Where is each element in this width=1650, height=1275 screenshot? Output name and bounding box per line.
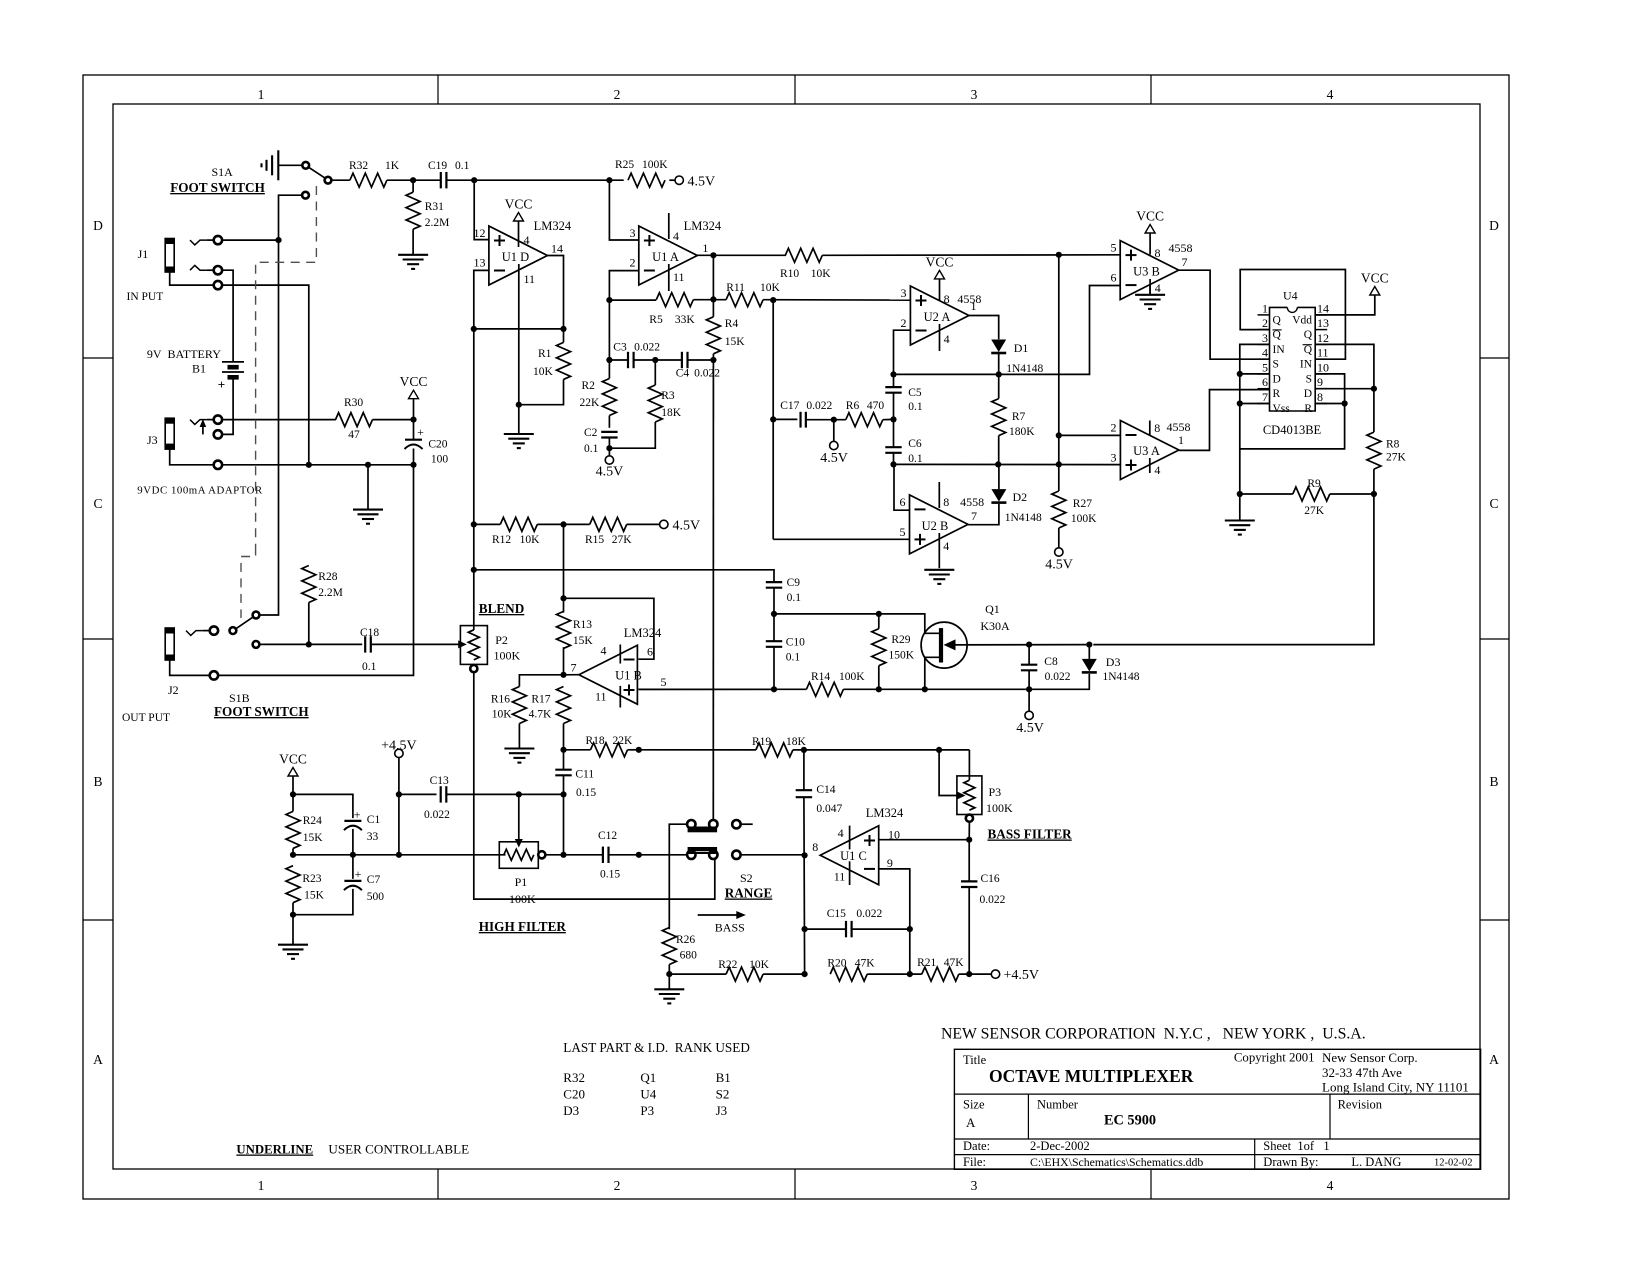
svg-text:Sheet 1of 1: Sheet 1of 1 xyxy=(1263,1139,1329,1153)
svg-text:J1: J1 xyxy=(138,247,149,261)
svg-text:Q: Q xyxy=(1304,344,1313,356)
svg-text:R32: R32 xyxy=(563,1070,585,1085)
wire (P1 to C12) xyxy=(545,854,602,856)
pin 7 label (U2B) xyxy=(971,509,977,523)
svg-text:500: 500 xyxy=(367,891,385,903)
svg-text:S2: S2 xyxy=(716,1087,730,1102)
junction xyxy=(922,686,928,692)
svg-text:+: + xyxy=(218,377,225,392)
svg-text:0.1: 0.1 xyxy=(362,661,377,673)
svg-text:0.1: 0.1 xyxy=(908,401,923,413)
table LAST PART & I.D. RANK USED xyxy=(563,1040,750,1118)
wire (C11 bottom to main line) xyxy=(563,794,565,854)
svg-text:NEW SENSOR CORPORATION N.Y.C: NEW SENSOR CORPORATION N.Y.C , NEW YORK … xyxy=(941,1026,1366,1043)
wire (pin 10 line) xyxy=(879,839,969,841)
wire (J3 sleeve / ground line) xyxy=(170,449,414,465)
svg-text:1: 1 xyxy=(258,87,265,102)
wire (C1 bottom) xyxy=(352,829,354,855)
junction xyxy=(560,852,566,858)
svg-text:7: 7 xyxy=(1182,255,1188,269)
wire (R31 leads) xyxy=(412,180,414,254)
svg-text:15K: 15K xyxy=(573,635,594,647)
wire (R23 bottom) xyxy=(292,903,294,945)
svg-text:1: 1 xyxy=(971,299,977,313)
svg-text:+4.5V: +4.5V xyxy=(1004,968,1040,983)
svg-text:2: 2 xyxy=(614,1178,621,1193)
section label BASS FILTER xyxy=(988,827,1073,842)
wire (J2 tip lever) xyxy=(186,631,210,636)
contact (J1 ring) xyxy=(214,266,222,274)
wire (R18 leads) xyxy=(564,749,639,751)
svg-text:9VDC 100mA ADAPTOR: 9VDC 100mA ADAPTOR xyxy=(137,485,263,497)
svg-text:0.022: 0.022 xyxy=(634,342,660,354)
svg-text:0.022: 0.022 xyxy=(856,908,882,920)
resistor R15 xyxy=(585,517,632,546)
capacitor C14 xyxy=(796,784,843,815)
svg-text:12: 12 xyxy=(1317,331,1329,345)
svg-text:VCC: VCC xyxy=(926,254,954,269)
svg-text:4.5V: 4.5V xyxy=(596,465,624,480)
svg-text:J2: J2 xyxy=(168,683,179,697)
wire (C11 leads) xyxy=(563,750,565,795)
svg-text:3: 3 xyxy=(971,1178,978,1193)
svg-text:Vdd: Vdd xyxy=(1292,314,1312,326)
svg-text:+: + xyxy=(417,425,424,439)
svg-text:R1: R1 xyxy=(538,348,552,360)
svg-text:2-Dec-2002: 2-Dec-2002 xyxy=(1030,1139,1090,1153)
wire (S2 upper-left to R26) xyxy=(669,824,687,929)
resistor R23 xyxy=(286,866,325,903)
junction xyxy=(996,371,1002,377)
capacitor C4 xyxy=(676,352,721,380)
svg-text:4: 4 xyxy=(1155,281,1161,295)
wire (main 854 line) xyxy=(293,854,506,856)
wire (ground to S1A throw 1) xyxy=(278,164,301,166)
svg-text:U1 C: U1 C xyxy=(840,849,867,863)
wire (S1B throw down to C18) xyxy=(260,643,362,645)
capacitor C13 xyxy=(424,775,450,821)
note UNDERLINE USER CONTROLLABLE xyxy=(236,1142,469,1157)
svg-text:10K: 10K xyxy=(520,534,541,546)
svg-text:C4: C4 xyxy=(676,368,690,380)
junction xyxy=(652,357,658,363)
wire (U1A chain to S2) xyxy=(712,360,714,820)
ground (R31) xyxy=(398,255,428,269)
junction xyxy=(1237,491,1243,497)
wire (R21 to +4.5V) xyxy=(959,973,991,975)
wire (S2 lower-right to U1C) xyxy=(740,854,804,856)
svg-text:11: 11 xyxy=(524,272,536,286)
wire (C2 bottom) xyxy=(608,438,610,456)
wire (gate line) xyxy=(944,639,1087,650)
svg-text:D3: D3 xyxy=(1106,655,1121,669)
svg-text:VCC: VCC xyxy=(279,752,307,767)
wire (C15 leads) xyxy=(805,928,910,930)
svg-text:2: 2 xyxy=(614,87,621,102)
wire (BASS arrow) xyxy=(698,911,746,935)
svg-text:5: 5 xyxy=(900,525,906,539)
junction xyxy=(290,912,296,918)
svg-text:0.022: 0.022 xyxy=(980,894,1006,906)
svg-text:13: 13 xyxy=(1317,316,1329,330)
VCC symbol (U1D) xyxy=(505,197,533,222)
svg-text:C17: C17 xyxy=(780,400,799,412)
svg-text:7: 7 xyxy=(1262,390,1268,404)
resistor R17 xyxy=(529,687,571,724)
svg-text:0.022: 0.022 xyxy=(424,809,450,821)
resistor R16 xyxy=(491,687,527,724)
svg-text:27K: 27K xyxy=(612,534,633,546)
svg-text:11: 11 xyxy=(834,870,846,884)
svg-text:C2: C2 xyxy=(584,427,598,439)
svg-text:8: 8 xyxy=(812,840,818,854)
svg-text:Vss: Vss xyxy=(1273,403,1291,415)
wire (pin2 node down) xyxy=(608,300,610,360)
wire (R5 leads) xyxy=(609,299,726,301)
wire (C12 to S2) xyxy=(609,854,688,856)
svg-text:C19: C19 xyxy=(428,160,447,172)
svg-text:4.5V: 4.5V xyxy=(1016,721,1044,736)
capacitor C18 xyxy=(360,627,379,673)
wire (C8/D3 bottom line) xyxy=(925,674,1090,689)
contact (P3 wiper out) xyxy=(966,815,973,822)
resistor R20 xyxy=(827,958,875,982)
wire (pin 2 loop U2A) xyxy=(894,330,911,374)
capacitor C7 xyxy=(344,867,384,903)
jack J3 xyxy=(137,418,263,496)
svg-text:P1: P1 xyxy=(515,875,528,889)
junction xyxy=(636,747,642,753)
ground (R16) xyxy=(504,749,534,763)
wire (C17 line) xyxy=(773,418,797,420)
svg-text:LM324: LM324 xyxy=(866,806,904,820)
wire (J1 ring lever) xyxy=(190,265,214,270)
svg-text:R15: R15 xyxy=(585,534,604,546)
wire (R7 leads) xyxy=(998,374,1000,464)
svg-text:22K: 22K xyxy=(580,397,601,409)
svg-text:13: 13 xyxy=(474,256,486,270)
contact (J2 tip) xyxy=(210,626,218,634)
svg-text:EC 5900: EC 5900 xyxy=(1104,1113,1156,1129)
svg-text:33K: 33K xyxy=(675,314,696,326)
svg-text:10K: 10K xyxy=(760,282,781,294)
potentiometer P2 (BLEND) xyxy=(460,601,524,664)
svg-text:LM324: LM324 xyxy=(534,219,572,233)
svg-text:8: 8 xyxy=(1317,390,1323,404)
wire (D1 to node line) xyxy=(998,353,1000,374)
svg-text:100K: 100K xyxy=(986,801,1013,815)
wire (R24 leads) xyxy=(292,794,294,854)
svg-text:J3: J3 xyxy=(147,433,158,447)
svg-text:R5: R5 xyxy=(649,314,663,326)
svg-text:Q: Q xyxy=(1304,329,1313,341)
svg-text:C15: C15 xyxy=(827,908,846,920)
svg-text:C10: C10 xyxy=(786,637,805,649)
svg-text:HIGH FILTER: HIGH FILTER xyxy=(479,919,567,934)
wire (R6 to C5/C6 node) xyxy=(883,418,894,420)
op-amp U2B xyxy=(900,482,985,568)
wire (C9 bottom) xyxy=(773,588,775,614)
resistor R10 xyxy=(780,248,831,280)
title block xyxy=(954,1049,1480,1169)
svg-text:R31: R31 xyxy=(425,201,444,213)
potentiometer P3 (BASS FILTER) xyxy=(957,776,1013,815)
junction xyxy=(410,177,416,183)
svg-text:6: 6 xyxy=(647,645,653,659)
wire (C13 to P1 wiper) xyxy=(446,793,563,795)
svg-text:B: B xyxy=(93,774,102,789)
resistor R21 xyxy=(917,957,964,981)
junction xyxy=(831,417,837,423)
svg-text:VCC: VCC xyxy=(505,197,533,212)
svg-text:C6: C6 xyxy=(908,438,922,450)
pin 8 label (U1C) xyxy=(812,840,818,854)
wire (4.5V stem) xyxy=(833,420,835,441)
svg-text:R27: R27 xyxy=(1073,498,1092,510)
svg-text:0.047: 0.047 xyxy=(816,803,842,815)
junction xyxy=(290,852,296,858)
svg-text:3: 3 xyxy=(901,286,907,300)
svg-text:Number: Number xyxy=(1037,1098,1079,1112)
wire (C5 leads) xyxy=(893,374,895,419)
svg-text:4558: 4558 xyxy=(957,292,981,306)
terminal 4.5V xyxy=(675,175,715,190)
wire (P3 wiper) xyxy=(939,750,965,800)
svg-text:4: 4 xyxy=(1327,1178,1334,1193)
wire (source line) xyxy=(925,657,939,689)
svg-text:4: 4 xyxy=(838,826,844,840)
junction xyxy=(1342,400,1348,406)
svg-text:BASS FILTER: BASS FILTER xyxy=(988,827,1073,842)
svg-text:+: + xyxy=(354,808,361,822)
svg-text:0.1: 0.1 xyxy=(908,453,923,465)
resistor R4 xyxy=(706,317,745,354)
wire (C8 leads) xyxy=(1028,645,1030,690)
wire (U4 pin3/5/7 ground bus) xyxy=(1240,344,1345,449)
contact (J2 sleeve) xyxy=(210,671,218,679)
wire (U1B pin5 line / R14 line) xyxy=(638,688,806,690)
svg-text:D: D xyxy=(1273,373,1281,385)
svg-text:2: 2 xyxy=(1111,421,1117,435)
svg-text:4: 4 xyxy=(1154,463,1160,477)
contact (J3 sleeve) xyxy=(214,461,222,469)
wire (C20 leads) xyxy=(413,420,415,465)
svg-text:C14: C14 xyxy=(816,784,835,796)
svg-text:4: 4 xyxy=(601,644,607,658)
svg-text:22K: 22K xyxy=(613,735,634,747)
terminal +4.5V (R21) xyxy=(991,968,1039,983)
resistor R25 xyxy=(615,159,668,187)
svg-text:3: 3 xyxy=(971,87,978,102)
junction xyxy=(471,567,477,573)
junction xyxy=(606,445,612,451)
svg-text:LAST PART & I.D. RANK USED: LAST PART & I.D. RANK USED xyxy=(563,1040,750,1055)
resistor R14 xyxy=(806,671,865,696)
pin 14 label (U1D) xyxy=(551,242,563,256)
resistor R22 xyxy=(718,959,769,981)
resistor R5 xyxy=(649,293,695,326)
capacitor C17 xyxy=(780,400,832,428)
capacitor C10 xyxy=(766,637,805,664)
pin 1 label (U1A) xyxy=(702,241,708,255)
svg-text:C16: C16 xyxy=(981,873,1000,885)
svg-text:47: 47 xyxy=(348,429,360,441)
svg-text:S2: S2 xyxy=(740,871,753,885)
junction xyxy=(290,791,296,797)
wire (U4 pin12 to R8) xyxy=(1315,344,1374,432)
junction xyxy=(890,461,896,467)
svg-text:R: R xyxy=(1273,388,1281,400)
svg-text:R18: R18 xyxy=(586,735,605,747)
capacitor C12 xyxy=(598,830,620,881)
svg-text:VCC: VCC xyxy=(1136,209,1164,224)
svg-text:C11: C11 xyxy=(575,769,594,781)
diode D1 xyxy=(991,340,1043,376)
contact (J3 tip) xyxy=(214,415,222,423)
svg-text:File:: File: xyxy=(963,1155,986,1169)
junction xyxy=(710,252,716,258)
op-amp U3B xyxy=(1111,233,1193,300)
wire (P2 bottom to HIGH FILTER loop) xyxy=(474,672,715,899)
svg-text:U1 B: U1 B xyxy=(615,669,642,683)
svg-text:7: 7 xyxy=(971,509,977,523)
wire (battery to J3 tip NC) xyxy=(222,377,233,434)
svg-text:47K: 47K xyxy=(855,958,876,970)
svg-text:U1 D: U1 D xyxy=(502,250,529,264)
terminal 4.5V (R6) xyxy=(820,441,848,466)
wire (R8 bottom) xyxy=(1373,469,1375,494)
wire (ground stub) xyxy=(367,465,369,510)
wire (R32 to C19) xyxy=(387,179,441,181)
resistor R24 xyxy=(286,811,323,848)
wire (pin 3 stub) xyxy=(609,180,638,240)
svg-text:R3: R3 xyxy=(661,390,675,402)
junction xyxy=(802,971,808,977)
svg-text:0.15: 0.15 xyxy=(600,869,620,881)
junction xyxy=(471,326,477,332)
svg-text:9: 9 xyxy=(887,856,893,870)
svg-text:L. DANG: L. DANG xyxy=(1351,1155,1401,1169)
svg-text:4: 4 xyxy=(673,229,679,243)
svg-text:1: 1 xyxy=(702,241,708,255)
resistor R11 xyxy=(726,282,780,307)
VCC symbol xyxy=(400,374,428,419)
resistor R30 xyxy=(336,397,373,441)
wire (U4 pin10 to pin8) xyxy=(1315,374,1344,404)
capacitor C19 xyxy=(428,160,470,188)
svg-text:U3 A: U3 A xyxy=(1133,444,1160,458)
junction xyxy=(275,237,281,243)
svg-text:15K: 15K xyxy=(725,336,746,348)
svg-text:IN: IN xyxy=(1300,359,1313,371)
junction xyxy=(802,852,808,858)
svg-text:1N4148: 1N4148 xyxy=(1006,363,1043,375)
junction xyxy=(802,926,808,932)
svg-text:UNDERLINE: UNDERLINE xyxy=(236,1143,313,1157)
svg-text:C1: C1 xyxy=(367,814,381,826)
resistor R7 xyxy=(992,399,1036,438)
wire (R9 leads) xyxy=(1240,493,1374,495)
junction xyxy=(907,971,913,977)
svg-text:R17: R17 xyxy=(531,694,550,706)
jack J1 xyxy=(127,239,175,304)
svg-text:A: A xyxy=(966,1115,976,1130)
svg-text:+4.5V: +4.5V xyxy=(381,739,417,754)
svg-text:4: 4 xyxy=(943,539,949,553)
junction xyxy=(606,357,612,363)
svg-text:1: 1 xyxy=(1262,301,1268,315)
wire (R3 leads) xyxy=(609,360,655,448)
diode D2 xyxy=(991,489,1042,524)
svg-text:R19: R19 xyxy=(752,736,771,748)
svg-text:12: 12 xyxy=(474,226,486,240)
wire (C7 leads) xyxy=(293,855,353,915)
terminal 4.5V (C8) xyxy=(1016,711,1044,736)
svg-text:18K: 18K xyxy=(661,407,682,419)
svg-text:100K: 100K xyxy=(1071,513,1097,525)
wire (ground stub U1D) xyxy=(518,405,520,434)
wire (U4 ground bus down) xyxy=(1239,449,1241,494)
wire (R29 leads) xyxy=(878,614,880,689)
svg-text:C: C xyxy=(93,496,102,511)
wire (pin 5 U2B) xyxy=(773,538,909,540)
svg-text:D1: D1 xyxy=(1014,341,1029,355)
svg-text:R30: R30 xyxy=(344,397,363,409)
svg-text:4: 4 xyxy=(524,233,530,247)
svg-text:9V BATTERY: 9V BATTERY xyxy=(147,347,221,361)
svg-text:BLEND: BLEND xyxy=(479,601,524,616)
junction xyxy=(710,296,716,302)
svg-text:Revision: Revision xyxy=(1338,1098,1383,1112)
svg-text:12-02-02: 12-02-02 xyxy=(1434,1158,1473,1169)
wire (C19 node down to pin 12) xyxy=(474,180,489,239)
svg-text:1: 1 xyxy=(1178,433,1184,447)
svg-text:0.1: 0.1 xyxy=(455,160,470,172)
svg-text:U1 A: U1 A xyxy=(652,250,679,264)
terminal 4.5V (C2) xyxy=(596,456,624,480)
svg-text:VCC: VCC xyxy=(400,374,428,389)
svg-text:USER CONTROLLABLE: USER CONTROLLABLE xyxy=(328,1142,469,1157)
junction xyxy=(560,521,566,527)
junction xyxy=(770,297,776,303)
svg-text:R14: R14 xyxy=(811,671,830,683)
wire (U1B feedback loop) xyxy=(564,598,654,659)
op-amp U1D xyxy=(474,219,572,291)
svg-text:6: 6 xyxy=(900,495,906,509)
wire (R16 leads) xyxy=(519,675,563,748)
wire (S1A-S1B mechanical linkage, dashed) xyxy=(241,186,316,618)
junction xyxy=(1371,491,1377,497)
svg-text:A: A xyxy=(93,1052,103,1067)
wire (pin 2 stub) xyxy=(609,271,638,301)
wire (R10 node down to U3A pin2) xyxy=(1058,255,1060,465)
op-amp U1A xyxy=(630,213,722,291)
wire (R30 to VCC node) xyxy=(373,419,414,421)
wire (U4 pin8 stub) xyxy=(1315,403,1344,405)
battery B1 xyxy=(147,347,244,392)
svg-text:11: 11 xyxy=(595,690,607,704)
svg-text:C:\EHX\Schematics\Schematics.d: C:\EHX\Schematics\Schematics.ddb xyxy=(1030,1155,1203,1169)
svg-text:A: A xyxy=(1489,1052,1499,1067)
wire (D2 top) xyxy=(998,464,1000,489)
svg-text:Copyright 2001: Copyright 2001 xyxy=(1234,1050,1315,1064)
svg-text:2.2M: 2.2M xyxy=(318,587,343,599)
wire (J1 ring to battery) xyxy=(222,270,233,361)
junction xyxy=(606,297,612,303)
wire (J3 NC arrow) xyxy=(200,419,207,434)
junction xyxy=(410,462,416,468)
wire (D3 top) xyxy=(1088,645,1090,659)
